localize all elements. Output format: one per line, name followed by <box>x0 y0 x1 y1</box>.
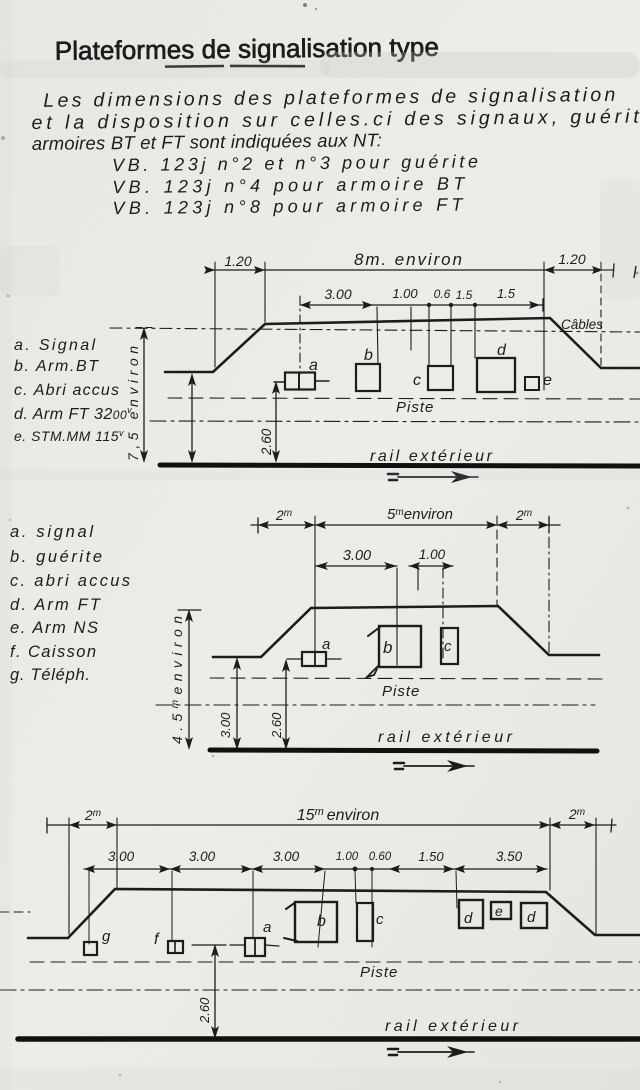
box c (abri accus) <box>428 366 453 390</box>
scan shading bands <box>320 52 640 78</box>
svg-text:2.60: 2.60 <box>269 712 284 739</box>
box d (Arm FT) <box>477 358 515 392</box>
box b (Arm BT) <box>356 364 380 391</box>
arrowhead at 265 <box>254 266 265 274</box>
svg-text:15menviron: 15menviron <box>297 806 380 824</box>
box a d3 <box>245 938 265 956</box>
vertical dim 2.60 d3 <box>214 947 216 1036</box>
extension line x265 <box>264 262 266 322</box>
chain dot at 429 <box>427 303 431 307</box>
box a d2 right lead <box>326 658 341 660</box>
track axis dash-dot 2 <box>156 704 595 706</box>
svg-text:b: b <box>317 913 326 930</box>
svg-text:1.20: 1.20 <box>558 251 585 267</box>
extension x550 <box>549 818 551 890</box>
extension x454 to d <box>456 871 457 908</box>
rail line 3 <box>18 1036 640 1042</box>
svg-text:3.00: 3.00 <box>343 548 371 564</box>
box f divider <box>174 941 176 953</box>
extension x418 <box>417 568 419 590</box>
vertical dim 7,5 environ <box>143 330 145 460</box>
svg-text:d: d <box>464 910 473 927</box>
box a divider <box>298 373 300 390</box>
svg-text:c. abri accus: c. abri accus <box>10 572 130 590</box>
title underline segment 2 <box>230 65 305 67</box>
dim row 2 line d3 <box>84 868 547 870</box>
end tick right <box>613 264 614 277</box>
svg-text:Piste: Piste <box>396 399 434 416</box>
svg-text:b. Arm.BT: b. Arm.BT <box>14 358 99 375</box>
svg-text:g: g <box>102 928 111 945</box>
arrowhead pair at 373 <box>362 301 373 309</box>
extension x475 to box d <box>474 307 476 358</box>
arrowhead 117 <box>106 821 117 829</box>
vertical dim 2.60 d2 <box>285 661 287 747</box>
equal sign mark 2 <box>394 763 404 769</box>
box a d2 left lead <box>287 658 302 660</box>
svg-text:3.00: 3.00 <box>189 849 216 864</box>
tick at 258 <box>257 518 259 533</box>
direction arrow 1 <box>398 476 456 478</box>
arrowhead at 215 left <box>204 266 215 274</box>
stray tick top-right of diagram 1 <box>634 266 636 278</box>
extension x596 long <box>595 818 597 935</box>
top lead 2.60 d3 <box>192 944 226 946</box>
rail line 1 <box>160 465 640 466</box>
tick at 549 <box>548 518 550 533</box>
arrowhead pair 497 <box>486 521 497 529</box>
svg-text:a: a <box>309 357 318 374</box>
extension x88 to g <box>88 871 90 944</box>
svg-text:e: e <box>543 372 552 389</box>
extension line x544 <box>543 262 545 390</box>
tick at 47 <box>46 818 48 833</box>
extension x375 to box b <box>377 307 378 363</box>
svg-text:1.5: 1.5 <box>456 288 473 302</box>
vertical dim 2.60 <box>275 384 277 460</box>
chain dot at 475 <box>473 303 477 307</box>
box a left lead <box>274 381 285 383</box>
extension x451 to box c <box>450 307 452 365</box>
box e d3 <box>491 902 511 919</box>
box a (signal) <box>285 373 315 390</box>
box a d3 divider <box>254 938 256 956</box>
svg-text:d: d <box>497 342 507 359</box>
svg-text:c: c <box>413 372 421 389</box>
svg-text:d: d <box>527 909 536 926</box>
piste dashed line 3 <box>30 961 640 963</box>
arrowhead at 300 <box>300 301 311 309</box>
box f <box>168 941 183 953</box>
title underline segment 1 <box>165 65 224 68</box>
box a right lead <box>315 380 329 382</box>
dimension row 1 line <box>207 269 614 271</box>
box b d3 door line <box>284 902 297 941</box>
svg-text:b: b <box>364 347 373 364</box>
extension x429 to box c <box>428 307 430 365</box>
svg-text:e. Arm NS: e. Arm NS <box>10 619 98 637</box>
svg-text:VB. 123j n°4 pour armoire BT: VB. 123j n°4 pour armoire BT <box>112 173 466 197</box>
direction arrow 2 <box>404 765 452 767</box>
arrowhead at 540 <box>529 301 540 309</box>
platform outline 1 <box>165 318 640 372</box>
track axis dash-dot 1 <box>150 421 640 422</box>
dim row line d3 <box>47 824 616 826</box>
svg-text:2.60: 2.60 <box>259 428 274 456</box>
piste dashed line 1 <box>168 398 640 399</box>
direction arrow 3 <box>398 1051 452 1053</box>
svg-text:Piste: Piste <box>360 964 398 981</box>
extension x355 to c <box>355 871 356 903</box>
platform outline 3 <box>28 889 640 938</box>
box e (STM) <box>525 377 539 390</box>
extension x398 to box b <box>396 568 398 665</box>
svg-text:3.00: 3.00 <box>218 712 233 738</box>
box b d2 (guerite) <box>379 626 421 667</box>
vertical dim 3.00 d2 <box>236 660 238 747</box>
svg-text:a. Signal: a. Signal <box>14 337 95 354</box>
svg-text:a: a <box>322 636 330 653</box>
svg-text:Câbles: Câbles <box>561 317 603 332</box>
box a d3 right lead <box>265 945 279 946</box>
extension x117 <box>116 818 118 889</box>
svg-text:b. guérite: b. guérite <box>10 548 102 566</box>
equal sign mark 3 <box>388 1049 398 1055</box>
box c d3 <box>357 903 373 941</box>
svg-text:e. STM.MM 115v: e. STM.MM 115v <box>14 428 124 444</box>
svg-text:1.50: 1.50 <box>418 849 444 864</box>
svg-text:VB. 123j n°2 et n°3 pour guéri: VB. 123j n°2 et n°3 pour guérite <box>112 151 478 175</box>
svg-text:3.00: 3.00 <box>324 286 351 302</box>
svg-text:1.5: 1.5 <box>497 286 516 301</box>
arrowhead 549 <box>538 521 549 529</box>
left edge dashes d3 <box>0 911 30 913</box>
arrowhead pair 312 <box>304 521 315 529</box>
rail line 2 <box>210 750 597 751</box>
arrowhead 258 <box>258 521 269 529</box>
svg-text:3.00: 3.00 <box>273 849 300 864</box>
extension x253 to a <box>252 871 254 937</box>
extension x497 dashed <box>496 516 498 605</box>
piste dashed line 2 <box>210 678 603 679</box>
svg-text:armoires BT et FT sont indiqué: armoires BT et FT sont indiquées aux NT: <box>32 129 382 154</box>
svg-text:c. Abri accus: c. Abri accus <box>14 382 119 399</box>
box d2 d3 <box>521 903 547 928</box>
svg-text:c: c <box>376 911 384 928</box>
vertical dim 4.5m environ <box>188 612 190 747</box>
arrowhead pair at 544 <box>544 266 555 274</box>
cables dash-dot line <box>110 328 640 332</box>
box b d2 door line <box>368 627 380 636</box>
svg-text:3.50: 3.50 <box>496 849 523 864</box>
svg-text:e: e <box>495 903 503 919</box>
svg-text:1.20: 1.20 <box>224 253 251 269</box>
arrowheads row2 d3 <box>84 865 95 873</box>
arrowhead 595 <box>584 821 595 829</box>
extension line x215 <box>214 262 216 367</box>
axis a dash-dot x300 <box>299 296 301 374</box>
speckle <box>303 3 307 7</box>
extension x372 to c right <box>371 871 373 947</box>
arrowhead at 603 <box>592 266 603 274</box>
dim 1.00 line d2 <box>409 565 453 567</box>
box a d2 <box>302 652 326 666</box>
svg-text:2.60: 2.60 <box>197 997 212 1024</box>
svg-text:1.00: 1.00 <box>392 286 418 301</box>
dim 3.00 line d2 <box>315 565 397 567</box>
dim row line d2 <box>251 524 560 526</box>
svg-text:3.00: 3.00 <box>108 849 135 864</box>
box c d2 <box>441 628 458 664</box>
extension x549 dash-dot <box>548 516 550 652</box>
tick at 612 <box>611 819 612 832</box>
svg-text:b: b <box>383 638 392 657</box>
arrowhead pair 550 <box>539 821 550 829</box>
extension line x601 dashed <box>600 262 602 366</box>
svg-text:0.6: 0.6 <box>434 287 451 301</box>
track axis dash-dot 3 <box>0 989 640 991</box>
extension x411 <box>410 307 412 350</box>
end bar at 543 <box>542 299 544 311</box>
vertical dim line x192 <box>191 376 193 460</box>
svg-text:c: c <box>444 638 452 655</box>
extension x312 long <box>314 516 316 652</box>
equal sign mark 1 <box>388 474 398 480</box>
svg-text:d. Arm FT 3200v: d. Arm FT 3200v <box>14 405 132 423</box>
svg-text:a: a <box>263 919 271 936</box>
chain dot at 451 <box>449 303 453 307</box>
extension x443 dash-dot <box>442 568 444 660</box>
platform outline 2 <box>213 606 599 657</box>
box b d2 corner hook <box>367 666 378 677</box>
svg-text:g. Téléph.: g. Téléph. <box>10 666 90 684</box>
dimension row 2 line <box>300 304 543 306</box>
extension x325 to b <box>318 871 325 947</box>
box g <box>84 942 97 955</box>
extension x172 to f <box>171 871 173 941</box>
svg-text:8m. environ: 8m. environ <box>354 250 462 269</box>
svg-text:0.60: 0.60 <box>369 851 392 863</box>
box b d3 <box>295 902 337 942</box>
svg-text:VB. 123j n°8 pour armoire FT: VB. 123j n°8 pour armoire FT <box>112 194 464 218</box>
arrowhead 69 left <box>69 821 80 829</box>
svg-text:1.00: 1.00 <box>336 851 359 863</box>
svg-text:Piste: Piste <box>382 683 420 700</box>
box a d3 left lead <box>230 944 245 946</box>
box d1 d3 <box>459 900 483 928</box>
extension x69 long <box>68 818 70 934</box>
svg-text:1.00: 1.00 <box>419 547 446 562</box>
box a d2 divider <box>314 652 316 666</box>
svg-text:f. Caisson: f. Caisson <box>10 643 96 661</box>
